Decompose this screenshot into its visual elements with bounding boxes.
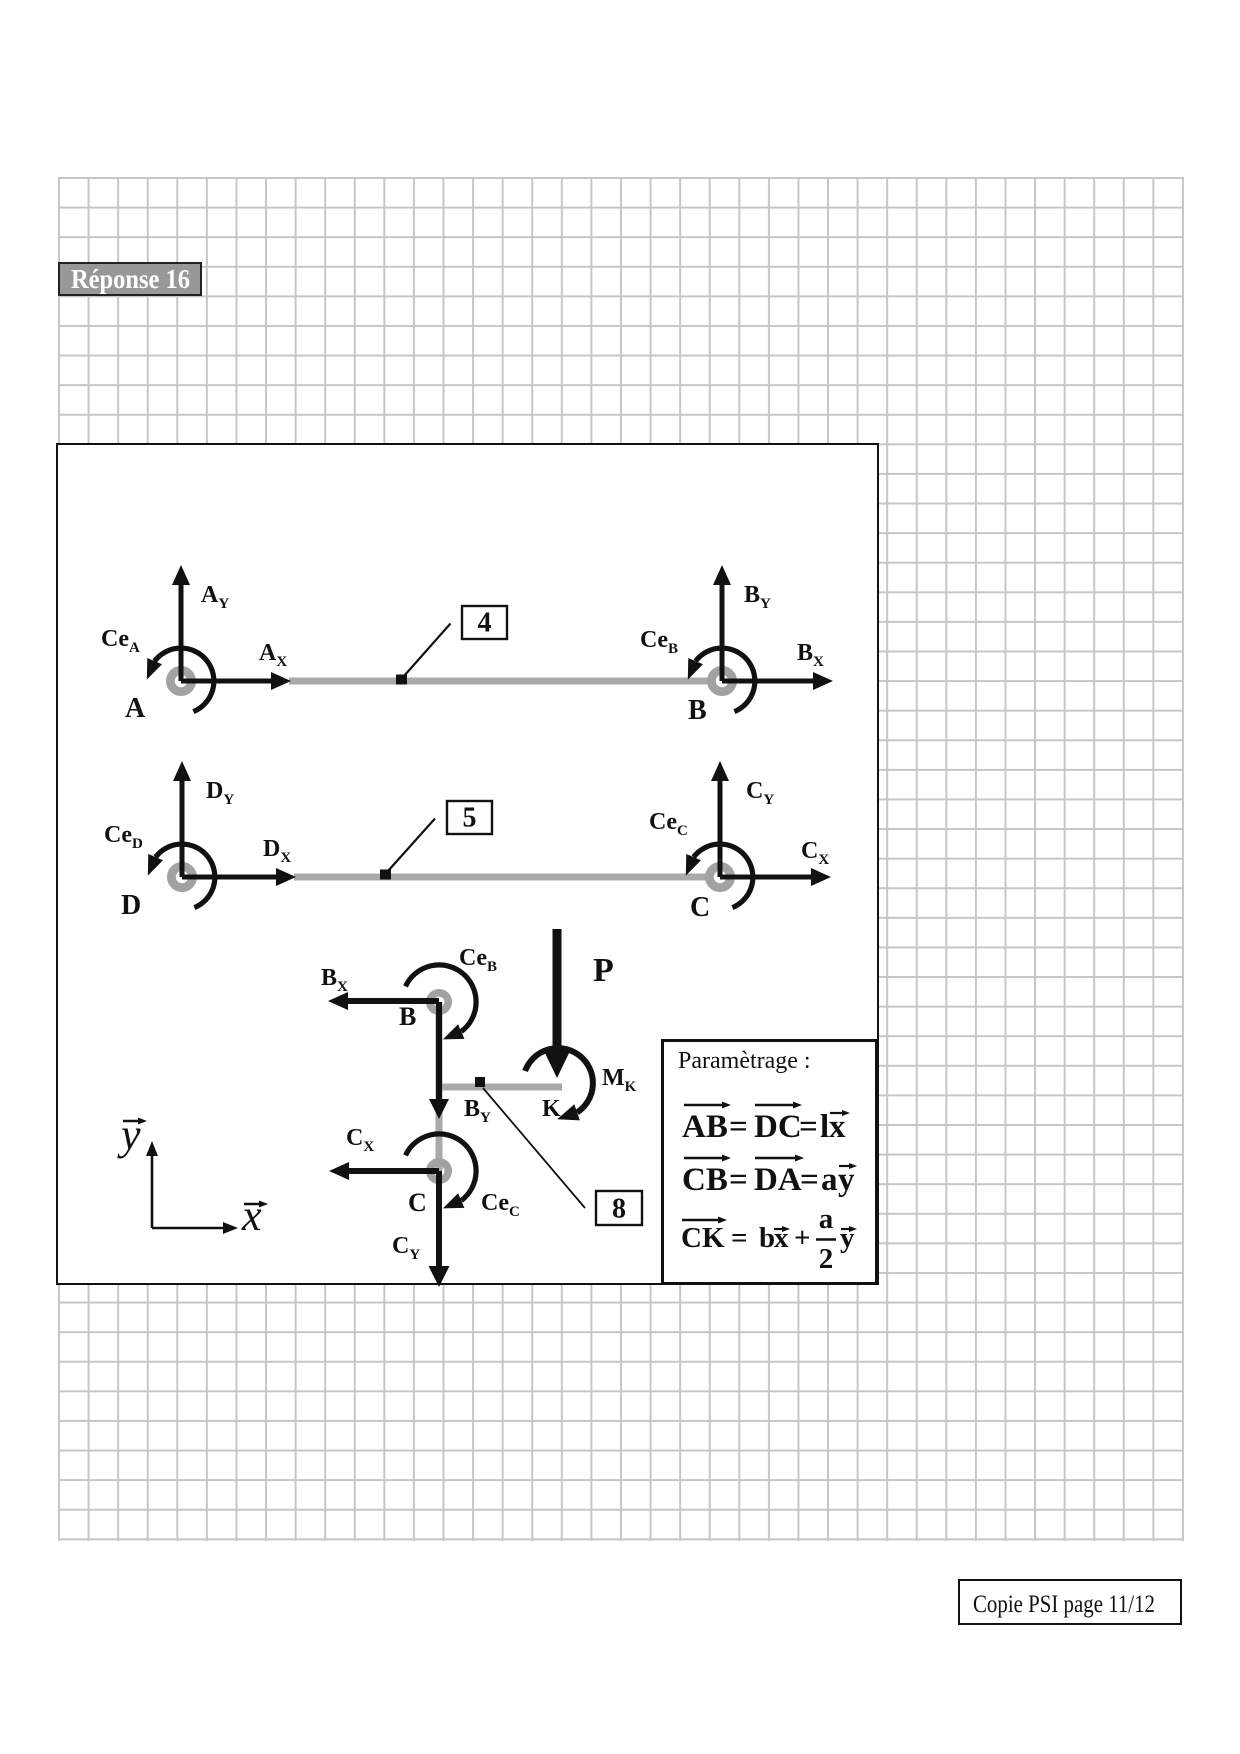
- svg-text:CY: CY: [746, 778, 774, 808]
- bar DC (link 5): [294, 874, 708, 881]
- svg-text:CeB: CeB: [640, 627, 678, 657]
- svg-text:CeD: CeD: [104, 822, 143, 852]
- svg-text:CeC: CeC: [649, 809, 688, 839]
- svg-text:x: x: [774, 1222, 789, 1254]
- vector arrow over CB: [684, 1155, 731, 1162]
- bar BC (link 8) vertical: [436, 1002, 443, 1171]
- svg-text:Paramètrage :: Paramètrage :: [678, 1048, 811, 1074]
- force arrow B_X (on 8): [328, 992, 439, 1010]
- fraction bar a/2: [816, 1238, 836, 1241]
- svg-text:AY: AY: [201, 582, 229, 612]
- vector arrow over y (eq3): [841, 1226, 857, 1232]
- main diagram frame: [56, 443, 879, 1285]
- load arrow P: [543, 929, 571, 1078]
- equation AB = DC = l x: [682, 1109, 846, 1145]
- marker square on bar DC: [380, 870, 391, 880]
- svg-text:x: x: [241, 1191, 262, 1240]
- svg-text:DC: DC: [754, 1109, 802, 1145]
- svg-text:D: D: [121, 890, 141, 921]
- force arrow D_Y: [173, 761, 191, 877]
- footer box Copie PSI: [958, 1579, 1182, 1625]
- svg-text:DX: DX: [263, 836, 291, 866]
- svg-text:b: b: [759, 1222, 775, 1254]
- svg-text:CeB: CeB: [459, 945, 497, 975]
- svg-text:BX: BX: [797, 640, 824, 670]
- axis arrow x: [152, 1222, 238, 1234]
- svg-text:5: 5: [463, 803, 477, 834]
- joint B pivot: [711, 670, 732, 691]
- svg-text:=: =: [799, 1109, 818, 1145]
- svg-text:CX: CX: [346, 1125, 374, 1155]
- force arrow C_Y (on 8): [429, 1171, 450, 1287]
- svg-text:CeA: CeA: [101, 626, 140, 656]
- leader line to callout 8: [483, 1088, 585, 1208]
- svg-text:AX: AX: [259, 640, 287, 670]
- svg-text:DY: DY: [206, 778, 234, 808]
- joint D pivot: [171, 866, 192, 887]
- marker square on arm at K: [475, 1077, 485, 1087]
- vector arrow over x (eq1): [830, 1110, 850, 1116]
- callout box 8: [596, 1191, 642, 1225]
- svg-text:CY: CY: [392, 1233, 420, 1263]
- svg-text:a: a: [821, 1162, 838, 1198]
- moment arc Ce_B (on 8): [406, 965, 477, 1039]
- moment arc Ce_D: [148, 844, 215, 908]
- moment arc M_K: [525, 1048, 593, 1120]
- equation CK = b x + a/2 y: [681, 1203, 855, 1275]
- svg-text:DA: DA: [754, 1162, 802, 1198]
- svg-text:Réponse 16: Réponse 16: [71, 264, 190, 294]
- svg-text:B: B: [688, 695, 707, 726]
- svg-text:C: C: [408, 1188, 427, 1217]
- joint B pivot (link 8): [430, 993, 448, 1011]
- svg-text:K: K: [542, 1096, 561, 1122]
- joint C pivot: [709, 866, 730, 887]
- svg-text:2: 2: [819, 1243, 834, 1275]
- svg-text:l: l: [820, 1109, 829, 1145]
- svg-text:+: +: [794, 1222, 811, 1254]
- bar AB (link 4): [289, 678, 710, 685]
- svg-text:MK: MK: [602, 1065, 637, 1095]
- moment arc Ce_B: [688, 648, 755, 712]
- svg-text:y: y: [117, 1110, 141, 1159]
- svg-text:a: a: [819, 1203, 834, 1235]
- callout box 5: [447, 801, 492, 834]
- svg-text:Copie PSI page 11/12: Copie PSI page 11/12: [973, 1591, 1155, 1618]
- leader line to callout 5: [388, 819, 435, 872]
- equation CB = DA = a y: [682, 1162, 855, 1198]
- squared grid background: [58, 177, 1184, 1541]
- force arrow C_X: [720, 868, 831, 886]
- bar arm to K: [442, 1084, 562, 1091]
- force arrow A_X: [181, 672, 291, 690]
- force arrow C_X (on 8): [329, 1162, 439, 1180]
- vector arrow over x axis label: [244, 1201, 268, 1208]
- axis arrow y: [146, 1141, 158, 1228]
- force arrow D_X: [182, 868, 296, 886]
- joint A pivot: [170, 670, 191, 691]
- svg-text:CK: CK: [681, 1222, 725, 1254]
- svg-text:P: P: [593, 952, 614, 989]
- vector arrow over x (eq3): [774, 1226, 790, 1232]
- svg-text:CX: CX: [801, 838, 829, 868]
- title box Réponse 16: [58, 262, 202, 296]
- vector arrow over CK: [682, 1217, 727, 1224]
- leader line to callout 4: [404, 624, 451, 677]
- svg-text:BY: BY: [744, 582, 771, 612]
- svg-text:CeC: CeC: [481, 1190, 520, 1220]
- svg-text:=: =: [729, 1109, 748, 1145]
- callout box 4: [462, 606, 507, 639]
- vector arrow over y (eq2): [839, 1163, 857, 1169]
- vector arrow over y axis label: [123, 1118, 147, 1125]
- svg-text:4: 4: [478, 608, 492, 639]
- svg-text:BY: BY: [464, 1096, 491, 1126]
- svg-text:BX: BX: [321, 965, 348, 995]
- svg-text:=: =: [731, 1222, 748, 1254]
- vector arrow over DA: [755, 1155, 804, 1162]
- svg-text:y: y: [840, 1222, 855, 1254]
- moment arc Ce_C: [686, 844, 753, 908]
- svg-text:B: B: [399, 1002, 416, 1031]
- svg-text:=: =: [729, 1162, 748, 1198]
- svg-text:AB: AB: [682, 1109, 728, 1145]
- joint C pivot (link 8): [430, 1162, 448, 1180]
- parametrage box: [661, 1039, 878, 1285]
- vector arrow over DC: [755, 1102, 802, 1109]
- force arrow B_X: [722, 672, 833, 690]
- force arrow A_Y: [172, 565, 190, 681]
- moment arc Ce_C (on 8): [406, 1134, 477, 1208]
- force arrow B_Y: [713, 565, 731, 681]
- force arrow B_Y (on 8): [429, 1002, 449, 1119]
- force arrow C_Y: [711, 761, 729, 877]
- vector arrow over AB: [684, 1102, 731, 1109]
- svg-text:A: A: [125, 693, 146, 724]
- svg-text:8: 8: [612, 1194, 626, 1225]
- svg-text:CB: CB: [682, 1162, 728, 1198]
- marker square on bar AB: [396, 675, 407, 685]
- moment arc Ce_A: [147, 648, 214, 712]
- svg-text:=: =: [800, 1162, 819, 1198]
- svg-text:C: C: [690, 892, 710, 923]
